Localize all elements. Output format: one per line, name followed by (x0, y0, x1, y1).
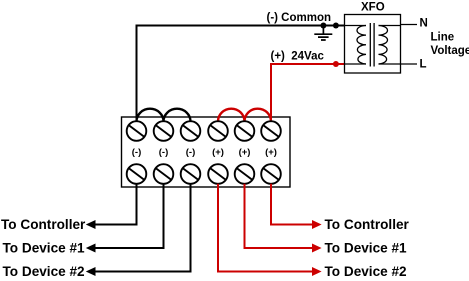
svg-text:Voltage: Voltage (431, 45, 469, 57)
svg-text:(+): (+) (265, 147, 277, 158)
svg-text:To Device #2: To Device #2 (325, 264, 408, 279)
svg-text:(+): (+) (239, 147, 251, 158)
svg-text:(+) 24Vac: (+) 24Vac (271, 51, 325, 63)
svg-text:N: N (420, 18, 428, 30)
svg-text:L: L (420, 59, 427, 71)
svg-text:(-) Common: (-) Common (267, 12, 332, 24)
svg-text:To Controller: To Controller (325, 217, 410, 232)
svg-text:To Device #1: To Device #1 (3, 241, 86, 256)
svg-text:(-): (-) (159, 147, 169, 158)
svg-text:(-): (-) (186, 147, 196, 158)
svg-text:To Controller: To Controller (1, 217, 86, 232)
svg-text:(-): (-) (132, 147, 142, 158)
svg-text:XFO: XFO (361, 1, 385, 13)
svg-text:To Device #2: To Device #2 (3, 264, 86, 279)
svg-text:Line: Line (431, 32, 455, 44)
svg-text:To Device #1: To Device #1 (325, 241, 408, 256)
svg-text:(+): (+) (212, 147, 224, 158)
